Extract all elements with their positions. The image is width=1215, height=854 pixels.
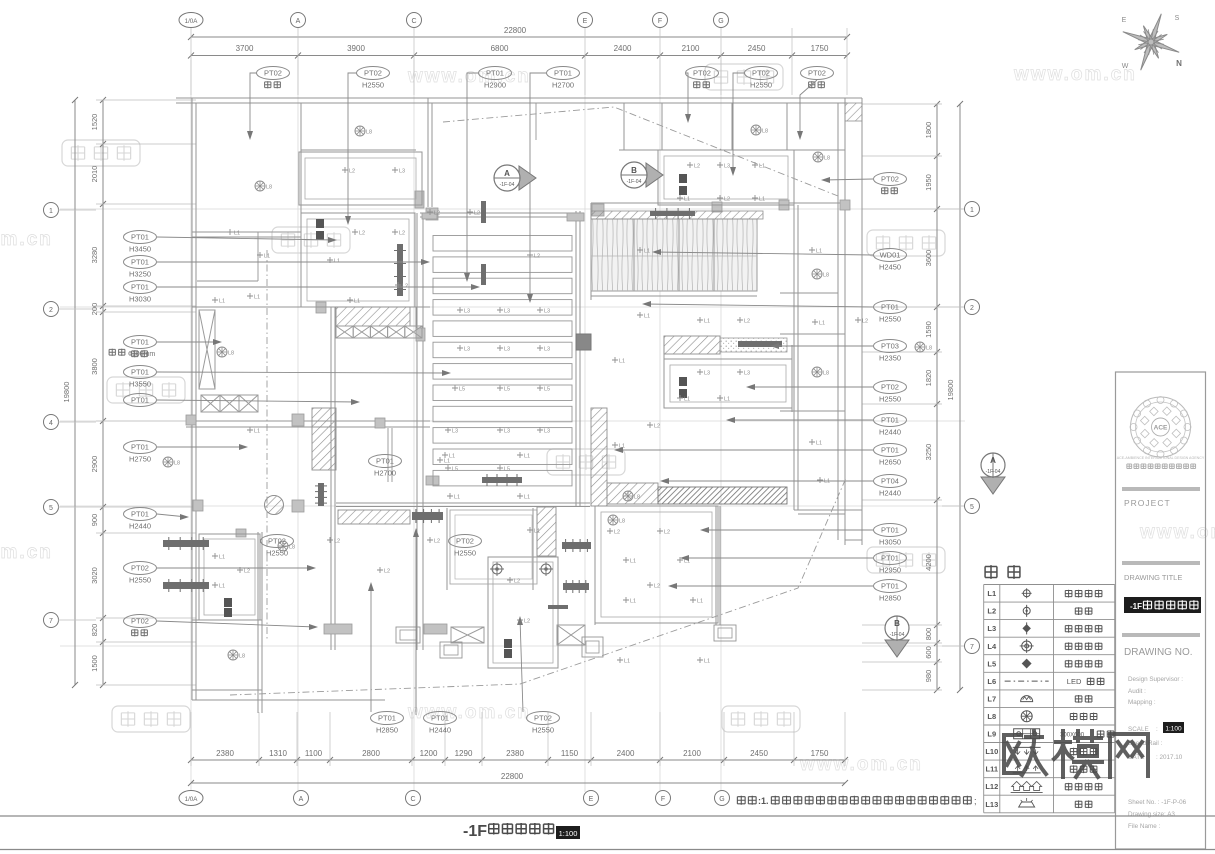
svg-text:L1: L1 [684,197,690,203]
chandelier hatched circle [265,496,284,515]
svg-text:PT02: PT02 [808,69,826,78]
svg-text::: : [1156,726,1158,733]
svg-text:L1: L1 [630,559,636,565]
vertical grille bars [481,201,486,223]
legend title 图列 [985,565,997,579]
svg-text:1950: 1950 [924,174,933,191]
svg-text:www.om.cn: www.om.cn [1013,64,1137,85]
svg-text:L8: L8 [823,273,829,279]
svg-text:L3: L3 [544,309,550,315]
svg-text:L2: L2 [334,539,340,545]
svg-text:S: S [1175,15,1180,22]
svg-text:2800: 2800 [362,749,380,758]
svg-text:1800: 1800 [924,122,933,139]
svg-text:L11: L11 [986,765,999,774]
svg-text:2450: 2450 [748,44,766,53]
svg-text:PT02: PT02 [131,617,149,626]
svg-text:L8: L8 [762,129,768,135]
svg-text:980: 980 [924,670,933,683]
svg-text:22800: 22800 [501,772,524,781]
svg-text:File Name :: File Name : [1128,823,1160,830]
svg-text:L2: L2 [524,619,530,625]
svg-text:L2: L2 [514,579,520,585]
svg-text:L3: L3 [744,371,750,377]
bottom border lines [0,815,1215,817]
svg-text:L1: L1 [444,459,450,465]
section marker A [519,166,536,190]
big watermark [1004,731,1148,777]
mid-right bedroom cove [664,359,792,408]
svg-text:900: 900 [90,514,99,527]
left dimension chain [102,100,104,685]
svg-text:2100: 2100 [683,749,701,758]
svg-text:L2: L2 [614,530,620,536]
svg-text:22800: 22800 [504,26,527,35]
svg-text:PT01: PT01 [881,554,899,563]
svg-text:L5: L5 [459,387,465,393]
svg-text:E: E [589,796,594,803]
svg-text:7: 7 [49,618,53,625]
svg-text:L2: L2 [987,607,996,616]
svg-text:DRAWING TITLE: DRAWING TITLE [1124,573,1182,582]
svg-text:1:100: 1:100 [559,829,578,838]
svg-text:1500: 1500 [90,655,99,672]
wall right edge of top-left block [427,98,429,207]
svg-text:C: C [411,18,416,25]
svg-text:L1: L1 [816,249,822,255]
svg-text:L3: L3 [504,309,510,315]
svg-text:L1: L1 [704,659,710,665]
svg-text:L2: L2 [434,211,440,217]
svg-text:L8: L8 [174,461,180,467]
hatched block top-right corner [845,103,862,121]
svg-text:PT02: PT02 [456,537,474,546]
svg-text:2010: 2010 [90,166,99,183]
svg-text:L8: L8 [366,130,372,136]
svg-text:1:100: 1:100 [1165,726,1182,733]
svg-text:Design Supervisor :: Design Supervisor : [1128,676,1183,683]
svg-text:3280: 3280 [90,247,99,264]
svg-text:Audit :: Audit : [1128,688,1146,695]
svg-text:N: N [1176,59,1182,68]
wall above small rooms [336,502,590,504]
svg-text:PT04: PT04 [881,477,899,486]
svg-text:L8: L8 [823,371,829,377]
bottom grid bubbles [179,791,203,806]
svg-text:L3: L3 [504,347,510,353]
svg-text:H2950: H2950 [879,566,901,575]
ceiling slats [433,236,572,252]
svg-text:PT01: PT01 [376,457,394,466]
svg-text:PT01: PT01 [881,416,899,425]
svg-text:7: 7 [970,644,974,651]
svg-text:3900: 3900 [347,44,365,53]
svg-text:WD01: WD01 [880,251,901,260]
dark column [576,334,591,350]
svg-text:L1: L1 [619,359,625,365]
svg-text:W: W [1122,63,1129,70]
title block frame [1116,372,1206,849]
svg-text:PT01: PT01 [131,368,149,377]
svg-text:L1: L1 [254,429,260,435]
svg-text:-1F-04: -1F-04 [890,632,905,638]
svg-text:H2550: H2550 [532,726,554,735]
svg-text:L2: L2 [402,284,408,290]
svg-text:PT01: PT01 [131,510,149,519]
svg-text:PT01: PT01 [554,69,572,78]
svg-text:A: A [990,456,996,465]
switch boxes [316,219,324,228]
hatched vertical strip [591,408,607,506]
hatched block left-center [312,408,336,470]
svg-text:L5: L5 [452,467,458,473]
svg-text:L1: L1 [624,659,630,665]
svg-text:1: 1 [49,208,53,215]
svg-text:L8: L8 [634,495,640,501]
svg-text:PT01: PT01 [131,258,149,267]
svg-text:www.om.cn: www.om.cn [407,66,531,87]
svg-text:L3: L3 [399,169,405,175]
svg-text:PT01: PT01 [881,582,899,591]
svg-text:L2: L2 [244,569,250,575]
svg-text:2: 2 [970,305,974,312]
svg-text:H3450: H3450 [129,245,151,254]
svg-text:L8: L8 [824,156,830,162]
svg-text:PT01: PT01 [131,283,149,292]
svg-text:L2: L2 [862,319,868,325]
vertical stair hatch small room [537,507,556,556]
svg-text:PT01: PT01 [131,396,149,405]
svg-text:L1: L1 [644,314,650,320]
property dash-dot lines [230,478,846,695]
svg-text:H2700: H2700 [552,81,574,90]
ACE logo [1131,397,1191,457]
stair upper xstrip [336,326,353,338]
svg-text:L1: L1 [534,529,540,535]
svg-text:H2440: H2440 [879,489,901,498]
svg-text:F: F [661,796,665,803]
svg-text:¢100mm: ¢100mm [128,351,155,358]
svg-text:L8: L8 [926,346,932,352]
svg-text:1750: 1750 [811,44,829,53]
svg-text:-1F-04: -1F-04 [627,179,642,185]
svg-text:www.om.cn: www.om.cn [407,702,531,723]
svg-text:1310: 1310 [269,749,287,758]
svg-text:A: A [299,796,304,803]
svg-text:L2: L2 [534,254,540,260]
right stair hatch [607,483,658,504]
svg-text:L2: L2 [399,231,405,237]
right PT labels [874,173,907,186]
svg-text:2380: 2380 [216,749,234,758]
svg-text:B: B [894,619,900,628]
ceiling lamps [355,126,365,136]
svg-text:PT02: PT02 [881,383,899,392]
svg-text:L1: L1 [234,231,240,237]
L4 chandelier symbols [492,564,502,574]
svg-text:-1F-04: -1F-04 [986,469,1001,475]
svg-text:19800: 19800 [62,382,71,403]
bottom-right room cove [488,557,558,668]
svg-text:4200: 4200 [924,554,933,571]
svg-text:L4: L4 [987,642,997,651]
svg-text:L1: L1 [219,555,225,561]
svg-text:L1: L1 [219,299,225,305]
stair right-top hatch [664,336,720,354]
svg-text:L2: L2 [654,584,660,590]
svg-text:L1: L1 [454,495,460,501]
svg-text:L5: L5 [544,387,550,393]
title block dividers [1122,487,1200,491]
svg-text:H2550: H2550 [362,81,384,90]
svg-text:L2: L2 [474,211,480,217]
svg-text:L1: L1 [704,319,710,325]
svg-text:H2900: H2900 [484,81,506,90]
living room cove [301,213,415,307]
svg-text:L1: L1 [219,584,225,590]
svg-text:PT02: PT02 [693,69,711,78]
svg-text:L9: L9 [987,730,996,739]
svg-text:L2: L2 [434,539,440,545]
north compass [1123,14,1179,70]
svg-text:H2850: H2850 [879,594,901,603]
svg-text:www.om.cn: www.om.cn [0,229,53,250]
svg-text:PT01: PT01 [131,233,149,242]
svg-text:PT02: PT02 [268,537,286,546]
svg-text:L3: L3 [544,347,550,353]
svg-text:L8: L8 [987,712,996,721]
svg-text:2380: 2380 [506,749,524,758]
svg-text:3700: 3700 [236,44,254,53]
svg-text:2450: 2450 [750,749,768,758]
svg-text:H3030: H3030 [129,295,151,304]
section marker B [646,163,663,187]
svg-text:PT01: PT01 [486,69,504,78]
svg-text:3800: 3800 [90,358,99,375]
svg-text:1290: 1290 [455,749,473,758]
svg-text:L1: L1 [987,589,996,598]
svg-text:H2440: H2440 [129,522,151,531]
PT03 stipple band [720,338,787,352]
svg-text:H2550: H2550 [129,576,151,585]
svg-text:L2: L2 [384,569,390,575]
svg-text:L2: L2 [349,169,355,175]
top grid bubbles [179,13,203,28]
svg-text:19800: 19800 [946,380,955,401]
svg-text:800: 800 [924,628,933,641]
svg-text:6800: 6800 [491,44,509,53]
drawing title black box [1124,597,1201,613]
svg-text:3020: 3020 [90,567,99,584]
svg-text:1/0A: 1/0A [185,796,199,803]
column blocks [592,204,604,216]
svg-text:www.om.cn: www.om.cn [1139,522,1215,543]
svg-text:820: 820 [90,624,99,637]
svg-text:Sheet No. : -1F-P-06: Sheet No. : -1F-P-06 [1128,799,1187,806]
svg-text:L1: L1 [644,249,650,255]
svg-text:5: 5 [970,504,974,511]
section marker B bottom [885,640,909,657]
svg-text:L1: L1 [697,599,703,605]
svg-text:PT01: PT01 [131,338,149,347]
interior walls vertical [300,103,302,307]
svg-text:L5: L5 [504,387,510,393]
svg-text:L1: L1 [759,197,765,203]
svg-text:L3: L3 [987,624,996,633]
svg-text:H2700: H2700 [374,469,396,478]
svg-text:L3: L3 [704,371,710,377]
svg-text:ACE-AMBIENCE INTERNATIONAL DES: ACE-AMBIENCE INTERNATIONAL DESIGN AGENCY [1117,456,1205,460]
left shaft xbox [199,310,215,389]
svg-text:PT01: PT01 [131,443,149,452]
svg-text:PT02: PT02 [881,175,899,184]
stair center hatch [338,510,410,524]
svg-text:H2550: H2550 [750,81,772,90]
svg-text:L13: L13 [985,800,998,809]
svg-text:H2550: H2550 [454,549,476,558]
svg-text:L12: L12 [985,782,998,791]
svg-text:Drawing size: A3: Drawing size: A3 [1128,811,1175,818]
svg-text:G: G [719,796,724,803]
svg-text:L1: L1 [819,321,825,327]
light watermark boxes 欧模网 [62,140,140,166]
svg-text:L1: L1 [254,295,260,301]
svg-text:-1F: -1F [1130,602,1142,611]
outer walls [176,97,862,99]
svg-text:ACE: ACE [1154,425,1168,432]
svg-text:L3: L3 [452,429,458,435]
stair upper hatch [336,307,410,326]
svg-text:L3: L3 [544,429,550,435]
svg-text:600: 600 [924,646,933,659]
svg-text:L3: L3 [464,347,470,353]
svg-text:H2750: H2750 [129,455,151,464]
xbox strip left [201,395,220,412]
svg-text:H2550: H2550 [266,549,288,558]
svg-text:L8: L8 [239,654,245,660]
svg-text:H3250: H3250 [129,270,151,279]
svg-text:PT01: PT01 [881,446,899,455]
svg-text:PROJECT: PROJECT [1124,498,1171,508]
family room cove [595,506,718,623]
svg-text:L2: L2 [724,197,730,203]
svg-text:1: 1 [970,207,974,214]
svg-text:2400: 2400 [614,44,632,53]
svg-text:L10: L10 [985,747,998,756]
svg-text:-1F-04: -1F-04 [500,182,515,188]
grid-4 wall band [186,420,430,422]
note text [737,796,745,805]
top dimension chain [191,36,847,38]
svg-text:PT02: PT02 [131,564,149,573]
svg-text:L8: L8 [266,185,272,191]
svg-text:L1: L1 [334,259,340,265]
svg-text:L5: L5 [987,659,996,668]
right dimension chain [936,104,938,690]
bottom dimension chain [191,759,845,761]
svg-text:H2440: H2440 [879,428,901,437]
svg-text:-1F: -1F [463,823,487,840]
svg-text:A: A [296,18,301,25]
left grid bubbles [44,203,59,218]
svg-text:L3: L3 [724,164,730,170]
svg-text:H3050: H3050 [879,538,901,547]
svg-text:PT01: PT01 [881,526,899,535]
small room outline [450,510,537,584]
svg-text:L2: L2 [694,164,700,170]
svg-text:2900: 2900 [90,456,99,473]
svg-text:L1: L1 [724,397,730,403]
svg-text:1150: 1150 [561,749,579,758]
closet walls top-left [192,236,301,238]
svg-text:L7: L7 [987,694,996,703]
svg-text::1.: :1. [758,796,769,806]
svg-text:L1: L1 [524,454,530,460]
svg-text:L2: L2 [654,424,660,430]
svg-text:PT03: PT03 [881,342,899,351]
svg-text:H2450: H2450 [879,263,901,272]
svg-text:1750: 1750 [811,749,829,758]
svg-text:G: G [718,18,723,25]
svg-text:1590: 1590 [924,321,933,338]
svg-text:3600: 3600 [924,250,933,267]
svg-text:H3550: H3550 [129,380,151,389]
svg-text:3250: 3250 [924,444,933,461]
grid axis lines [190,60,192,792]
svg-text:L1: L1 [816,441,822,447]
left PT labels [124,231,157,244]
svg-text:1820: 1820 [924,370,933,387]
svg-text:2100: 2100 [682,44,700,53]
svg-text:L8: L8 [619,519,625,525]
bottom PT labels [371,712,404,725]
svg-text:2: 2 [49,307,53,314]
svg-text:L8: L8 [228,351,234,357]
svg-text:L6: L6 [987,677,996,686]
svg-text:DRAWING NO.: DRAWING NO. [1124,647,1193,658]
svg-text:L3: L3 [504,429,510,435]
svg-text:PT02: PT02 [264,69,282,78]
nested square columns [396,627,420,643]
svg-text:1200: 1200 [420,749,438,758]
svg-text:H2650: H2650 [879,458,901,467]
svg-text:A: A [504,169,510,178]
right grid bubbles [965,202,980,217]
top PT labels [257,67,290,80]
section marker A right [981,477,1005,494]
svg-text:L5: L5 [504,467,510,473]
svg-text:L2: L2 [744,319,750,325]
svg-text:L2: L2 [664,530,670,536]
svg-text:4: 4 [49,420,53,427]
svg-text:L1: L1 [524,495,530,501]
svg-text:www.om.cn: www.om.cn [0,542,53,563]
svg-text:C: C [410,796,415,803]
svg-text:H2550: H2550 [879,315,901,324]
svg-text:L1: L1 [824,479,830,485]
svg-text:B: B [631,166,637,175]
svg-text:F: F [658,18,662,25]
svg-text:PT02: PT02 [752,69,770,78]
svg-text:H2550: H2550 [879,395,901,404]
dark hatched band bottom [658,487,787,504]
svg-text:E: E [583,18,588,25]
svg-text:L1: L1 [759,164,765,170]
small L-marks [342,167,348,173]
svg-text:L1: L1 [684,397,690,403]
svg-text:L2: L2 [359,231,365,237]
svg-text:H2440: H2440 [429,726,451,735]
